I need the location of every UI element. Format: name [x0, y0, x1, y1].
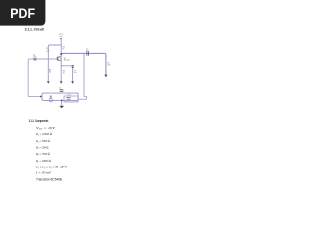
svg-text:35u: 35u [33, 56, 36, 58]
svg-text:35u: 35u [74, 72, 77, 74]
svg-text:RL = 20000 Ω: RL = 20000 Ω [35, 159, 51, 164]
svg-text:C3: C3 [59, 88, 61, 90]
svg-text:C1 = C2 = C3 = 35 · 10-6 F: C1 = C2 = C3 = 35 · 10-6 F [36, 165, 67, 170]
svg-text:R3 = 200 Ω: R3 = 200 Ω [35, 145, 49, 150]
svg-text:VCC = 10V: VCC = 10V [36, 125, 56, 130]
svg-text:35u: 35u [86, 51, 89, 53]
svg-text:I = 50 mF: I = 50 mF [35, 171, 52, 175]
svg-text:PDF: PDF [10, 5, 35, 21]
svg-text:1k: 1k [63, 72, 65, 74]
svg-text:R2 = 5000 Ω: R2 = 5000 Ω [35, 139, 50, 144]
svg-text:2k: 2k [62, 48, 64, 50]
svg-text:R4 = 7500 Ω: R4 = 7500 Ω [35, 152, 50, 157]
svg-text:R1 = 10000 Ω: R1 = 10000 Ω [35, 132, 52, 137]
svg-text:Transistor BC546B: Transistor BC546B [36, 177, 62, 181]
svg-text:20k: 20k [107, 64, 110, 66]
svg-text:XSC1: XSC1 [67, 95, 71, 97]
svg-text:10k: 10k [46, 50, 49, 52]
svg-text:5k: 5k [49, 71, 51, 73]
svg-text:3.1.2. Components: 3.1.2. Components [29, 119, 49, 124]
svg-text:BC546: BC546 [64, 59, 70, 61]
svg-text:3.1.1. Circuit: 3.1.1. Circuit [25, 27, 45, 31]
svg-text:10V: 10V [59, 36, 63, 38]
